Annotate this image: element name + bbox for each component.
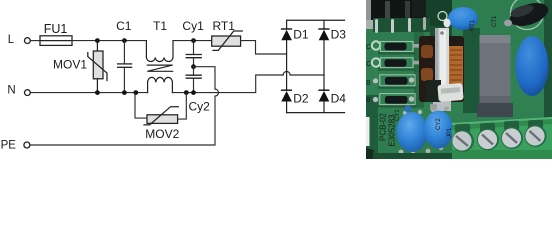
PCB photo <box>366 0 552 159</box>
photo pad near discs <box>430 104 437 110</box>
bridge left rail upper <box>286 20 288 29</box>
photo terminal block pockets <box>452 117 552 125</box>
wire hop over bridge left rail <box>283 72 290 76</box>
photo black cap top right <box>511 0 544 30</box>
photo diode row shadows <box>378 52 415 55</box>
diode D1 <box>281 29 292 40</box>
varistor MOV1 <box>88 41 107 93</box>
svg-text:PCB-02: PCB-02 <box>379 112 388 141</box>
photo solder pads near discs <box>403 111 407 115</box>
svg-text:L: L <box>8 34 15 46</box>
svg-text:C: C <box>366 44 371 51</box>
bridge right rail lower <box>323 102 325 113</box>
transformer T1 core <box>147 65 172 71</box>
photo diode row 4 <box>373 94 415 105</box>
bridge right rail upper <box>323 20 325 29</box>
wire T1 to RT1 (L rail) <box>173 40 212 42</box>
photo white blob left of disc <box>444 19 451 28</box>
bridge top bus <box>287 19 345 21</box>
svg-text:C1: C1 <box>116 19 132 33</box>
svg-text:C: C <box>366 61 371 68</box>
wire T1 to bridge (N rail) <box>172 75 283 93</box>
photo diode row 1 <box>372 41 421 51</box>
svg-text:D3: D3 <box>331 28 347 42</box>
svg-text:PE: PE <box>1 140 17 152</box>
svg-text:MOV1: MOV1 <box>53 58 87 72</box>
bridge left rail lower <box>286 102 288 113</box>
transformer T1 top winding <box>146 41 173 62</box>
photo darker patches <box>366 95 378 155</box>
svg-text:Cy2: Cy2 <box>189 99 211 113</box>
photo big blue disc right <box>516 36 549 96</box>
photo metal clamp <box>435 28 449 111</box>
junction dot C1 top <box>122 38 127 43</box>
svg-text:T1: T1 <box>153 19 167 33</box>
photo bottom left dark corner <box>366 148 374 159</box>
fuse FU1 <box>40 36 72 46</box>
capacitor Cy1 <box>186 41 201 67</box>
svg-text:RT1: RT1 <box>470 19 476 31</box>
junction dot MOV2 left <box>133 90 138 95</box>
photo bottom shadow band <box>366 153 452 159</box>
node PE terminal <box>24 142 30 148</box>
svg-text:CY2: CY2 <box>436 118 442 130</box>
capacitor Cy2 <box>186 67 201 93</box>
capacitor C1 <box>118 41 132 93</box>
svg-text:CT1: CT1 <box>492 15 498 27</box>
junction dot MOV1 bottom <box>95 90 100 95</box>
photo black base under white sleeve <box>426 80 441 102</box>
wire RT1 to bridge (L) <box>241 41 287 54</box>
photo diode row 2 <box>372 58 421 68</box>
bridge bottom bus <box>287 112 345 114</box>
photo top dark components strip <box>366 0 426 21</box>
svg-text:Cy1: Cy1 <box>182 19 204 33</box>
photo copper right column <box>449 46 463 90</box>
junction dot Cy1 top <box>191 38 196 43</box>
wire N terminal to T1 (N rail) <box>30 92 147 94</box>
photo blue disc bottom 2 <box>424 111 453 149</box>
photo white sleeve component <box>437 83 463 102</box>
transformer T1 bottom winding <box>148 77 173 92</box>
wire FU1 to T1 (L rail) <box>72 40 146 42</box>
photo transformer winding dark body <box>419 36 464 102</box>
photo gray block <box>480 35 511 105</box>
svg-text:D1: D1 <box>293 28 309 42</box>
bridge right rail middle <box>323 40 325 90</box>
wire PE rail <box>30 96 215 145</box>
wire L terminal to FU1 <box>30 40 40 42</box>
wire hop to bridge right rail <box>290 74 324 76</box>
svg-text:B: B <box>366 97 371 104</box>
svg-text:N: N <box>7 85 15 97</box>
svg-text:FU1: FU1 <box>44 22 68 36</box>
junction dot Cy midpoint <box>191 64 196 69</box>
svg-text:CY1: CY1 <box>395 109 401 121</box>
photo silkscreen ring top <box>438 12 447 21</box>
diode D3 <box>319 29 330 40</box>
photo copper bulge left top <box>421 45 433 58</box>
diode D2 <box>281 90 292 101</box>
svg-text:D2: D2 <box>293 92 309 106</box>
varistor MOV2 <box>135 93 186 125</box>
photo blue disc capacitor top <box>448 7 478 30</box>
photo tiny blue cap <box>404 105 411 112</box>
wire hop PE over N rail <box>215 89 219 96</box>
junction dot MOV1 top <box>95 38 100 43</box>
wire PE to Cy midpoint <box>194 67 216 89</box>
photo blue disc bottom 1 <box>397 112 428 152</box>
photo white edge bar <box>366 117 370 146</box>
bridge left rail middle <box>286 40 288 90</box>
node L terminal <box>25 38 31 44</box>
junction dot C1 bottom <box>122 90 127 95</box>
photo background PCB green <box>366 0 552 159</box>
junction dot Cy2 bottom <box>191 90 196 95</box>
svg-text:D4: D4 <box>331 92 347 106</box>
photo diode row 3 <box>373 75 415 86</box>
photo terminal block <box>452 117 552 159</box>
junction dot MOV2 right <box>184 90 189 95</box>
photo terminal screws <box>452 125 547 152</box>
thermistor RT1 <box>212 31 243 50</box>
diode D4 <box>319 90 330 101</box>
node N terminal <box>25 90 31 96</box>
svg-text:MOV2: MOV2 <box>145 127 179 141</box>
svg-text:B: B <box>366 80 371 87</box>
svg-text:RT1: RT1 <box>212 19 235 33</box>
photo component pins <box>375 19 378 33</box>
